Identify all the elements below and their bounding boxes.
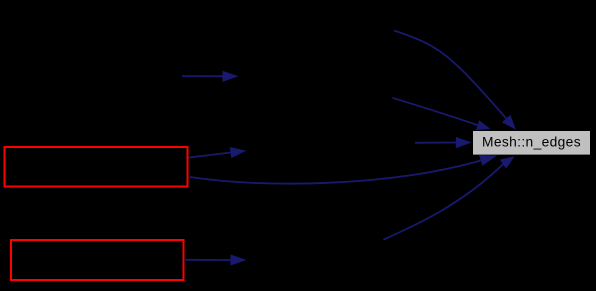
svg-text:Mesh::n_edges: Mesh::n_edges — [482, 134, 581, 149]
